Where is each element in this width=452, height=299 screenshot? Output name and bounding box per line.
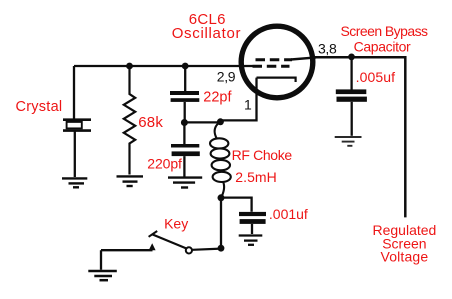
node (screen bypass junction) (348, 54, 355, 61)
svg-text:Capacitor: Capacitor (354, 39, 411, 55)
wire crystal top lead (73, 66, 75, 119)
ground (.001uf) (239, 236, 263, 245)
svg-text:1: 1 (244, 96, 252, 112)
svg-text:22pf: 22pf (203, 89, 232, 105)
svg-text:2.5mH: 2.5mH (235, 169, 276, 185)
resistor 68k (124, 66, 135, 175)
svg-text:3,8: 3,8 (318, 41, 337, 57)
wire screen 3,8 to right rail (315, 57, 405, 217)
node (key right junction) (218, 245, 225, 252)
svg-text:Crystal: Crystal (16, 99, 63, 115)
capacitor C .001uf (239, 212, 266, 234)
svg-text:2,9: 2,9 (217, 69, 236, 85)
crystal Y1 (63, 120, 91, 131)
svg-text:68k: 68k (138, 114, 163, 131)
label Regulated Screen Voltage (372, 222, 436, 264)
node (rail / 68k junction) (126, 63, 133, 70)
inductor RF choke 2.5mH (210, 122, 231, 198)
ground (68k) (117, 176, 144, 186)
node (rail / 22pf junction) (182, 63, 189, 70)
node (22pf / 220pf / choke junction) (181, 119, 188, 126)
ground (.005uf) (335, 137, 362, 146)
wire key left lead (101, 250, 153, 270)
tube 6CL6 V1 (241, 26, 316, 98)
svg-text:Key: Key (164, 215, 188, 231)
svg-text:Screen Bypass: Screen Bypass (341, 23, 429, 39)
wire junction to choke top (184, 121, 220, 123)
svg-text:RF Choke: RF Choke (232, 147, 293, 163)
label 6CL6 Oscillator (172, 11, 242, 42)
wire cathode pin 1 lead (220, 79, 256, 120)
ground (key) (88, 271, 117, 280)
wire crystal bottom lead (74, 132, 76, 178)
ground (crystal) (62, 178, 87, 187)
svg-text:Oscillator: Oscillator (172, 25, 242, 42)
svg-text:.001uf: .001uf (269, 206, 308, 222)
switch key (149, 231, 221, 253)
node (choke bottom junction) (218, 194, 225, 201)
capacitor C .005uf (336, 57, 367, 136)
svg-text:.005uf: .005uf (356, 69, 396, 85)
wire top rail (grid bus) (74, 65, 253, 67)
ground (220pf) (168, 178, 202, 188)
node (choke top junction) (217, 118, 224, 125)
wire choke bottom to .001uf (221, 198, 252, 212)
capacitor 220pf (171, 123, 200, 177)
wire choke bottom to key (220, 198, 222, 248)
capacitor 22pf (170, 66, 199, 123)
svg-text:220pf: 220pf (147, 156, 182, 172)
svg-text:Voltage: Voltage (381, 249, 429, 265)
label Screen Bypass Capacitor (341, 23, 429, 55)
